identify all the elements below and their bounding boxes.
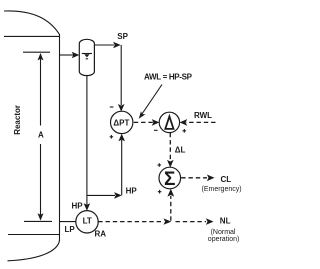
svg-text:CL: CL xyxy=(221,175,232,184)
dimension A xyxy=(23,52,52,221)
wire pot down to LT with HP branch xyxy=(84,75,122,211)
summer sigma xyxy=(159,167,181,190)
svg-text:Reactor: Reactor xyxy=(13,105,22,135)
label Normal operation xyxy=(208,229,240,243)
plus sign at sigma bottom input xyxy=(158,190,162,194)
dashed AWL wire dPT to delta xyxy=(134,119,160,126)
svg-text:LT: LT xyxy=(83,217,92,226)
svg-text:HP: HP xyxy=(126,186,138,195)
svg-text:(Emergency): (Emergency) xyxy=(202,186,242,193)
plus sign at sigma top input xyxy=(158,163,162,167)
svg-text:Σ: Σ xyxy=(164,169,175,190)
annotation AWL = HP-SP xyxy=(139,72,193,118)
svg-text:A: A xyxy=(38,131,44,140)
svg-text:ΔPT: ΔPT xyxy=(113,118,129,127)
dashed wire junction up to sigma xyxy=(167,189,174,221)
svg-text:LP: LP xyxy=(65,225,76,234)
svg-text:SP: SP xyxy=(117,32,128,41)
svg-text:NL: NL xyxy=(220,217,231,226)
svg-text:operation): operation) xyxy=(208,236,240,243)
reference leg pot xyxy=(79,39,94,75)
minus sign at dPT SP input xyxy=(110,106,114,108)
minus sign at delta left input xyxy=(154,129,158,131)
svg-text:(Normal: (Normal xyxy=(211,229,236,236)
svg-text:AWL = HP-SP: AWL = HP-SP xyxy=(144,72,193,81)
svg-text:RWL: RWL xyxy=(194,111,212,120)
transmitter LT xyxy=(76,211,98,233)
dashed CL output wire xyxy=(181,175,214,182)
svg-text:RA: RA xyxy=(95,229,107,238)
wire reactor to pot xyxy=(60,52,80,59)
svg-text:HP: HP xyxy=(72,201,84,210)
dashed dL wire delta to sigma xyxy=(167,133,174,168)
plus sign at dPT HP input xyxy=(110,135,114,139)
dashed LT output wire xyxy=(98,218,171,224)
summer delta xyxy=(159,112,179,132)
wire HP up to dPT xyxy=(118,134,125,196)
transmitter dPT xyxy=(111,111,133,133)
dashed NL wire xyxy=(176,218,214,225)
wire LP from vessel to LT xyxy=(60,221,77,223)
plus sign at delta right input xyxy=(183,129,187,133)
wire pot to SP corner xyxy=(94,42,120,49)
svg-text:ΔL: ΔL xyxy=(175,145,186,154)
reactor vessel xyxy=(4,11,60,261)
dashed RWL wire xyxy=(180,119,216,126)
wire SP down to dPT xyxy=(118,45,125,112)
